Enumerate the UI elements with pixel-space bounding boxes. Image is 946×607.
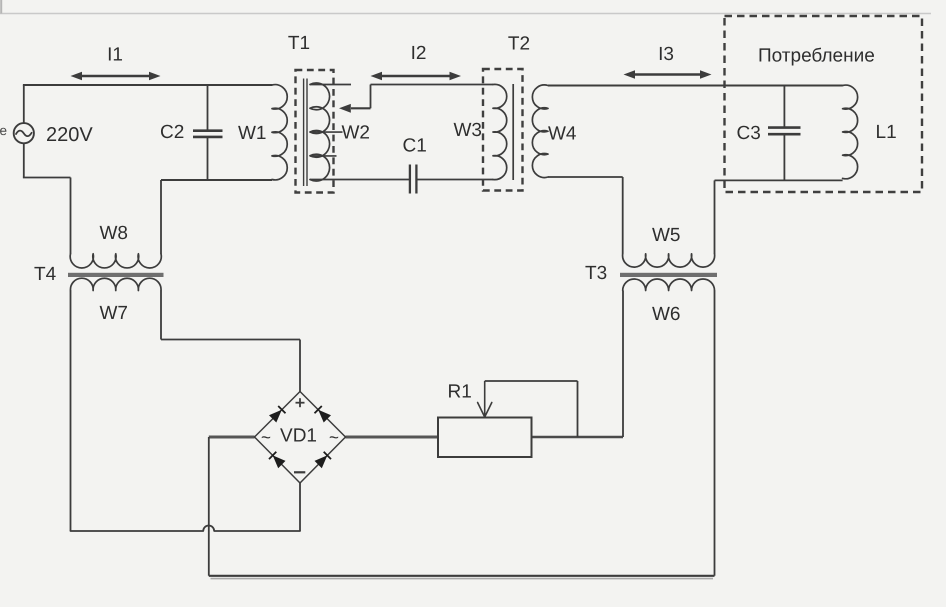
svg-text:W7: W7	[100, 303, 129, 324]
svg-text:~: ~	[261, 428, 271, 447]
svg-text:C3: C3	[737, 123, 761, 144]
svg-text:не: не	[0, 123, 7, 138]
svg-text:C2: C2	[160, 122, 184, 143]
svg-text:T1: T1	[288, 33, 310, 54]
svg-text:Потребление: Потребление	[758, 46, 875, 67]
svg-text:R1: R1	[448, 382, 472, 403]
svg-text:I3: I3	[658, 44, 674, 65]
svg-text:T4: T4	[34, 264, 57, 285]
svg-text:W6: W6	[652, 304, 681, 325]
svg-text:W5: W5	[652, 225, 681, 246]
svg-text:I1: I1	[107, 45, 123, 66]
svg-text:L1: L1	[876, 122, 897, 143]
svg-text:T2: T2	[508, 34, 530, 55]
svg-text:W4: W4	[548, 124, 577, 145]
svg-text:C1: C1	[403, 136, 427, 157]
svg-text:~: ~	[329, 428, 339, 447]
svg-text:I2: I2	[411, 43, 427, 64]
svg-text:W1: W1	[238, 123, 267, 144]
svg-text:T3: T3	[585, 263, 607, 284]
svg-text:W8: W8	[100, 223, 129, 244]
svg-text:VD1: VD1	[280, 426, 317, 447]
svg-text:220V: 220V	[46, 124, 93, 146]
svg-text:W3: W3	[454, 120, 483, 141]
svg-text:W2: W2	[342, 123, 371, 144]
